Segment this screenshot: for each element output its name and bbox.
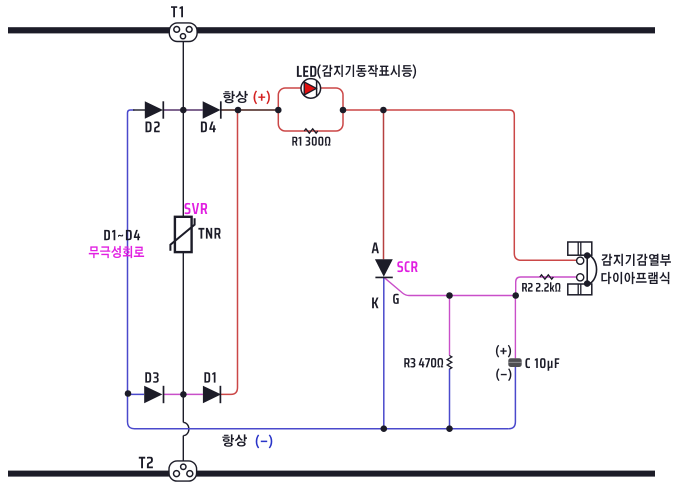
wire: blue SCR cathode down to minus rail — [383, 277, 385, 428]
sensor diaphragm chord and arc — [586, 255, 588, 284]
resistor R3 zigzag (vertical) — [447, 356, 452, 370]
label SCR — [397, 261, 417, 272]
label (+) capacitor — [496, 345, 511, 358]
node: LED loop right — [340, 107, 347, 114]
wire: magenta node up to R2 and right to sensor bottom contact — [516, 277, 577, 296]
label R2 2.2kOhm — [522, 282, 560, 291]
wire: purple segment D2 to D4 — [163, 109, 202, 111]
label D3 — [145, 372, 158, 383]
label (+) red — [254, 91, 270, 105]
label hangsang top — [223, 91, 248, 103]
label TNR — [198, 228, 220, 239]
wire: center vertical, hop to T2 — [182, 436, 184, 465]
wire: blue minus rail horizontal — [135, 428, 509, 430]
wire: bottom diode row blue segment — [128, 393, 145, 395]
label sensor korean line2 — [601, 272, 669, 284]
SCR thyristor triangle — [375, 259, 393, 277]
label LED — [297, 66, 317, 77]
node: R3 on minus rail — [446, 425, 453, 432]
varistor TNR (SVR) body — [175, 217, 192, 252]
sensor contact circle bottom — [577, 274, 584, 281]
node: SCR cathode on minus rail — [381, 425, 388, 432]
varistor diagonal strike — [170, 218, 194, 251]
label C 10uF — [525, 358, 559, 371]
label R1 300 — [292, 137, 330, 146]
node: LED loop left — [275, 107, 282, 114]
node: gate/R3 junction — [446, 292, 453, 299]
diode D4 — [203, 101, 221, 118]
label R3 470Ohm — [404, 358, 443, 368]
label SVR — [185, 203, 208, 214]
label D4 — [201, 122, 216, 133]
wire: magenta node down to capacitor — [514, 296, 516, 359]
wire: center vertical, diode row to hop — [182, 394, 184, 422]
wire: center vertical from T1 to TNR — [182, 42, 184, 217]
wire: magenta SCR gate diagonal and horizontal — [385, 278, 516, 296]
label LED korean — [322, 65, 412, 77]
node: diaphragm top — [584, 252, 591, 259]
label D1 bottom — [204, 372, 215, 382]
label D2 — [146, 121, 160, 132]
node: diaphragm bottom — [584, 280, 591, 287]
node: bottom center junction — [180, 391, 187, 398]
wire: bottom diode row magenta segment D3 to D1 — [164, 393, 203, 395]
node: gate/R2/C junction — [512, 292, 519, 299]
label K (cathode) — [372, 298, 378, 309]
power bus top (T1 line) — [8, 27, 655, 33]
wire: blue below R3 to minus rail — [449, 369, 451, 429]
label mugeukseong hoero — [89, 246, 144, 258]
sensor bottom terminal block — [568, 284, 592, 295]
node: plus rail junction — [235, 107, 242, 114]
LED / R1 parallel loop (red rounded rect) — [278, 88, 343, 131]
wire hop over blue bus — [183, 422, 189, 435]
wire: dark red vertical to SCR anode — [383, 110, 385, 259]
SCR cathode bar — [375, 276, 392, 278]
terminal T1 — [169, 23, 197, 42]
label hangsang bottom — [222, 434, 247, 446]
wire: short black segment into D2 — [133, 109, 145, 111]
label (-) capacitor — [496, 368, 511, 381]
LED triangle — [304, 82, 316, 95]
resistor R2 zigzag — [540, 275, 554, 279]
label G (gate) — [393, 294, 399, 304]
wire: blue below capacitor to minus rail corner — [509, 367, 516, 429]
label LED open paren — [317, 64, 321, 78]
sensor contact circle top — [577, 257, 584, 264]
wire: red vertical plus rail x=237.5 (D1 cathode up to plus node) — [220, 110, 237, 394]
diode D3 — [144, 386, 162, 403]
node: center top junction — [180, 107, 187, 114]
label D1~D4 — [104, 230, 140, 240]
LED cathode bar — [316, 81, 318, 96]
wire: blue left vertical (D2 anode down to minus rail) — [128, 110, 135, 429]
resistor R1 zigzag — [304, 129, 318, 133]
node: bottom left blue junction — [125, 390, 132, 397]
label sensor korean line1 — [601, 254, 671, 266]
diode D1 — [203, 386, 221, 403]
node: SCR anode branch — [380, 107, 387, 114]
LED D (indicator) circle — [301, 79, 321, 99]
label A (anode) — [372, 243, 379, 254]
capacitor C body — [508, 358, 521, 367]
label T2 — [139, 457, 153, 469]
label T1 — [171, 6, 183, 17]
wire: red from loop right node to sensor top contact — [343, 110, 577, 260]
power bus bottom (T2 line) — [8, 471, 655, 477]
label (-) blue — [256, 435, 273, 449]
label LED close paren — [413, 64, 417, 78]
wire: magenta R3 branch down — [449, 296, 451, 356]
sensor top terminal block — [568, 242, 592, 255]
diode D2 — [145, 101, 163, 118]
wire: center vertical TNR to bottom diode row — [182, 252, 184, 394]
terminal T2 — [169, 461, 197, 481]
wire: dark maroon segment D4 to LED loop — [221, 109, 278, 111]
